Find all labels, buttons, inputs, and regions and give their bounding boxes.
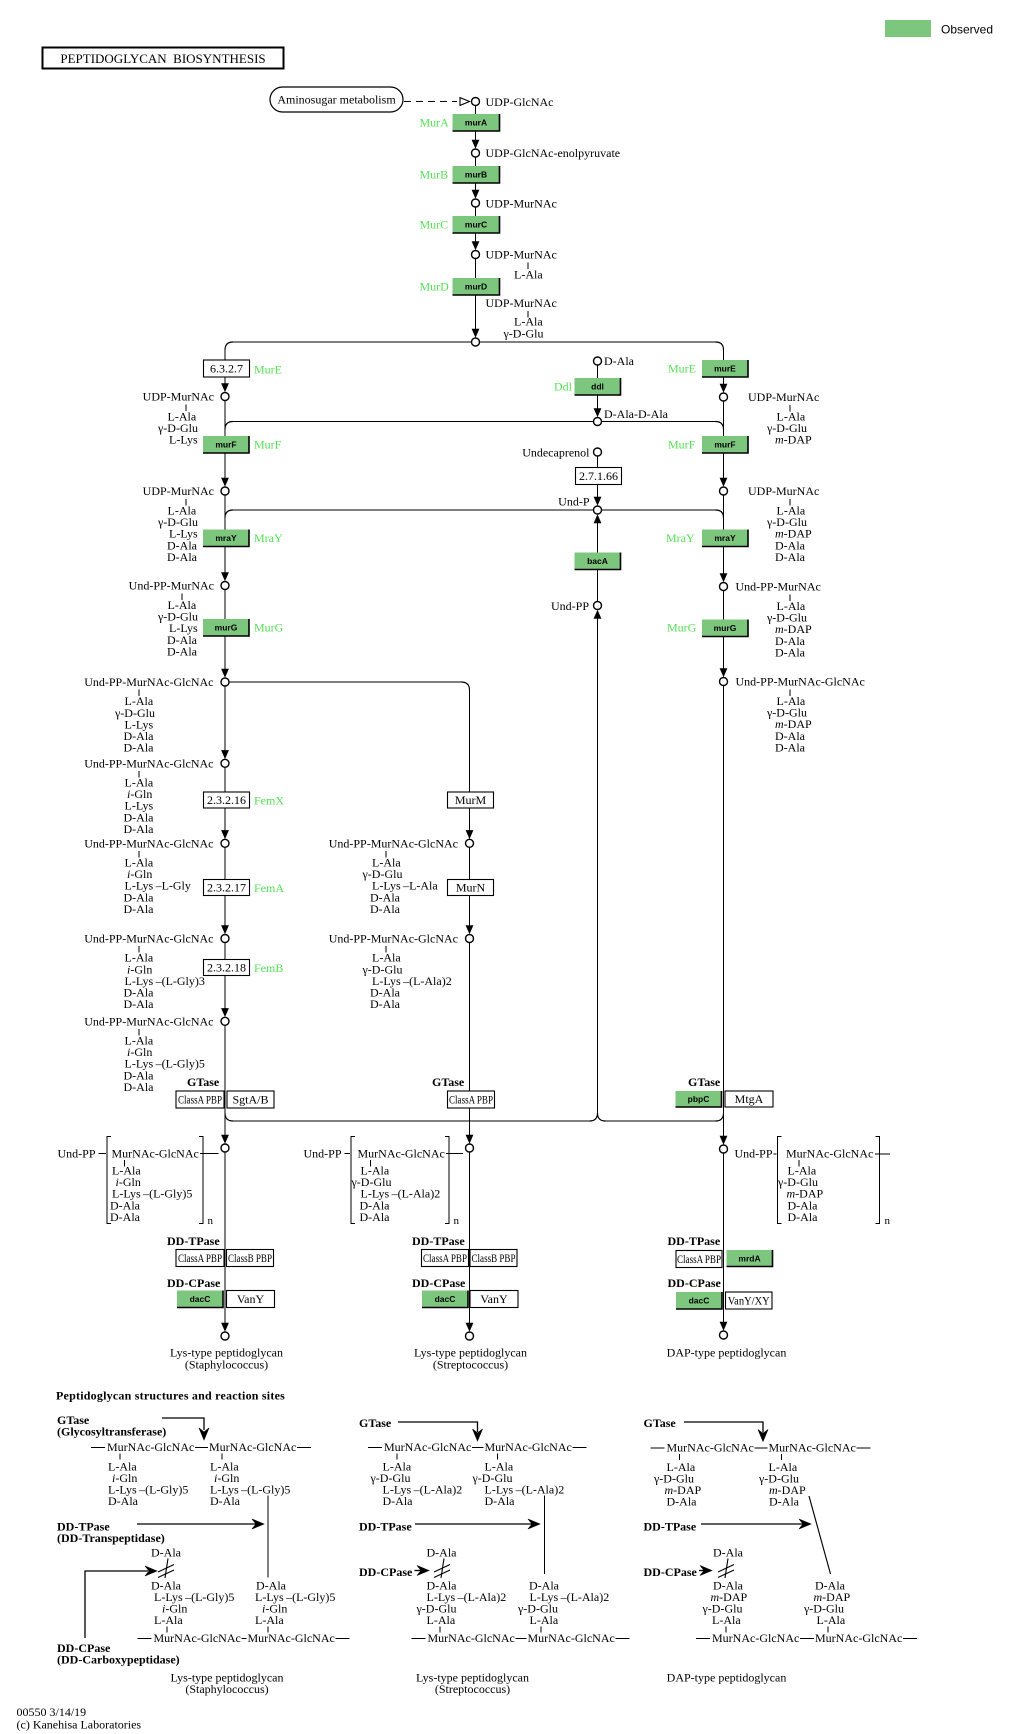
wire left node to murG: [224, 590, 226, 620]
pointer DD-TPase structure3: [701, 1519, 811, 1529]
wire to murC: [475, 207, 477, 216]
peptide s3 upper-left: [653, 1460, 702, 1509]
substituents c5: [124, 1034, 205, 1094]
svg-text:Und-PP-MurNAc-GlcNAc: Und-PP-MurNAc-GlcNAc: [84, 756, 213, 770]
tick under UDP-MurNAc 3: [527, 311, 529, 318]
wire und recycling fork left curve b: [225, 1113, 233, 1121]
svg-text:(Streptococcus): (Streptococcus): [433, 1358, 508, 1372]
svg-text:murD: murD: [465, 282, 487, 292]
wire MurM column vertical: [469, 690, 471, 792]
node Lys-type peptidoglycan Streptococcus: [466, 1332, 474, 1340]
wire Und-P feed corner left: [225, 510, 233, 518]
tick s1 bottom unit1: [166, 1627, 168, 1633]
tick under MurNAc middle: [370, 1160, 372, 1167]
glycan strand structure2 top: [368, 1440, 587, 1454]
svg-text:(DD-Carboxypeptidase): (DD-Carboxypeptidase): [57, 1653, 180, 1667]
arrow into product left: [221, 1320, 229, 1332]
svg-text:GTase: GTase: [187, 1075, 220, 1089]
tick s2 unit1: [396, 1454, 398, 1460]
svg-text:2.3.2.17: 2.3.2.17: [207, 881, 246, 895]
wire UDP-GlcNAc to murA: [475, 106, 477, 115]
node Und-PP-MurNAc-GlcNAc c5: [221, 1017, 229, 1025]
svg-text:murF: murF: [215, 440, 236, 450]
svg-text:VanY: VanY: [237, 1292, 265, 1306]
node Und-PP-MurNAc-GlcNAc right: [720, 678, 728, 686]
bracket right middle: [445, 1137, 449, 1224]
tick under UDP-MurNAc left 1: [185, 405, 187, 412]
gene box ClassA PBP GTase left: [176, 1091, 224, 1108]
wire dashed Aminosugar to UDP-GlcNAc: [404, 101, 457, 103]
svg-text:MurF: MurF: [254, 438, 282, 452]
svg-text:mrdA: mrdA: [738, 1253, 760, 1263]
arrow murD to main node: [472, 295, 480, 338]
arrow 6.3.2.7 to UDP-MurNAc-tripeptide: [221, 377, 229, 392]
svg-text:MurNAc-GlcNAc: MurNAc-GlcNAc: [154, 1631, 241, 1645]
wire main split corner left: [225, 342, 233, 350]
wire und recycling fork left horizontal: [233, 1120, 590, 1122]
pointer DD-CPase structure2: [415, 1566, 430, 1576]
tick s2 bottom unit1: [439, 1627, 441, 1633]
tick under UDP-MurNAc 2: [527, 263, 529, 270]
svg-text:D-Ala: D-Ala: [124, 997, 155, 1011]
svg-text:Und-PP: Und-PP: [58, 1147, 96, 1161]
gene box dacC left: [177, 1291, 223, 1308]
tick under m2: [385, 946, 387, 953]
svg-text:MurA: MurA: [420, 116, 450, 130]
svg-text:D-Ala: D-Ala: [383, 1494, 414, 1508]
peptide s2 upper-right: [472, 1460, 565, 1509]
svg-text:L-Ala: L-Ala: [712, 1613, 741, 1627]
node UDP-MurNAc pentapeptide right: [720, 487, 728, 495]
gene box ddl: [575, 378, 621, 395]
svg-text:D-Ala: D-Ala: [485, 1494, 516, 1508]
enzyme box 2.7.1.66: [576, 468, 622, 485]
svg-text:D-Ala: D-Ala: [124, 822, 155, 836]
crosslink bond s2: [544, 1496, 546, 1575]
svg-text:2.7.1.66: 2.7.1.66: [579, 469, 618, 483]
node Und-PP-MurNAc-GlcNAc c4: [221, 935, 229, 943]
bracket left middle: [351, 1137, 355, 1224]
gene box murD: [453, 278, 500, 295]
wire to murD: [475, 259, 477, 279]
svg-text:MurNAc-GlcNAc: MurNAc-GlcNAc: [248, 1631, 335, 1645]
gene box mraY left: [203, 530, 249, 547]
svg-text:VanY: VanY: [480, 1292, 508, 1306]
wire polymer right to product: [723, 1153, 725, 1323]
glycan strand structure2 bottom: [412, 1631, 630, 1645]
substituents right r3: [766, 599, 812, 659]
svg-text:MtgA: MtgA: [735, 1092, 764, 1106]
pointer DD-CPase structure1: [85, 1566, 157, 1638]
tick under c2: [138, 771, 140, 778]
bracket left right: [778, 1137, 782, 1224]
svg-text:ddl: ddl: [591, 382, 604, 392]
wire right node to murG: [723, 591, 725, 620]
svg-text:murB: murB: [465, 170, 487, 180]
svg-text:Und-PP-MurNAc: Und-PP-MurNAc: [736, 580, 821, 594]
svg-text:L-Ala: L-Ala: [530, 1613, 559, 1627]
svg-text:ClassA PBP: ClassA PBP: [423, 1251, 467, 1265]
peptide s2 upper-left: [370, 1460, 463, 1509]
gene box murF right: [702, 436, 748, 453]
gene box MtgA: [725, 1091, 773, 1107]
wire Und-P feed into left mraY: [233, 509, 594, 511]
svg-text:MurF: MurF: [668, 438, 696, 452]
svg-text:DAP-type peptidoglycan: DAP-type peptidoglycan: [667, 1346, 787, 1360]
svg-text:MurG: MurG: [254, 621, 284, 635]
wire main split horizontal: [233, 341, 716, 343]
gene box VanY/XY: [726, 1292, 773, 1309]
gene box murB: [453, 166, 500, 183]
enzyme box 2.3.2.17 FemA: [204, 880, 250, 896]
node Und-PP-MurNAc-GlcNAc m2: [466, 935, 474, 943]
svg-text:murF: murF: [714, 440, 735, 450]
glycan strand structure3 top: [651, 1441, 871, 1455]
svg-text:GTase: GTase: [359, 1416, 392, 1430]
tick under c3: [138, 851, 140, 858]
gene box murF left: [203, 436, 249, 453]
gene box pbpC: [676, 1091, 722, 1107]
svg-text:D-Ala: D-Ala: [667, 1495, 698, 1509]
svg-text:MurNAc-GlcNAc: MurNAc-GlcNAc: [209, 1440, 296, 1454]
svg-text:murC: murC: [465, 220, 487, 230]
wire D-Ala-D-Ala feed into right murF: [602, 421, 716, 423]
svg-text:DD-TPase: DD-TPase: [668, 1234, 721, 1248]
wire m2 to GTase middle: [469, 943, 471, 1137]
tick under UDP-MurNAc left 2: [185, 499, 187, 506]
svg-text:murE: murE: [714, 364, 736, 374]
svg-text:D-Ala: D-Ala: [110, 1210, 141, 1224]
tick under Und-PP-MurNAc-GlcNAc right: [789, 690, 791, 697]
svg-text:D-Ala: D-Ala: [775, 740, 806, 754]
svg-text:MurNAc-GlcNAc: MurNAc-GlcNAc: [107, 1440, 194, 1454]
tick s3 unit2: [781, 1454, 783, 1460]
svg-text:DD-TPase: DD-TPase: [644, 1520, 697, 1534]
arrow murB to UDP-MurNAc 1: [472, 183, 480, 199]
svg-text:Und-P: Und-P: [558, 495, 590, 509]
svg-text:Und-PP-MurNAc-GlcNAc: Und-PP-MurNAc-GlcNAc: [736, 675, 865, 689]
pointer DD-TPase structure1: [137, 1519, 264, 1529]
gene box murA: [453, 114, 500, 131]
svg-text:(Glycosyltransferase): (Glycosyltransferase): [57, 1425, 166, 1439]
svg-text:murG: murG: [714, 623, 737, 633]
arrow bacA to Und-P: [594, 514, 602, 552]
wire D-Ala-D-Ala feed corner left: [225, 422, 233, 430]
svg-text:Und-PP-MurNAc-GlcNAc: Und-PP-MurNAc-GlcNAc: [84, 932, 213, 946]
node Und-P: [594, 506, 602, 514]
arrow 2.3.2.18 to c5: [221, 976, 229, 1018]
svg-text:ClassA PBP: ClassA PBP: [449, 1093, 493, 1107]
svg-text:m-DAP: m-DAP: [775, 433, 812, 447]
wire Und-P feed corner right: [716, 510, 724, 518]
svg-text:UDP-GlcNAc: UDP-GlcNAc: [486, 95, 554, 109]
gene box ClassA PBP TPase right: [676, 1251, 722, 1268]
svg-text:6.3.2.7: 6.3.2.7: [210, 362, 243, 376]
tick s2 unit2: [497, 1454, 499, 1460]
wire und recycling fork left curve a: [590, 1113, 598, 1121]
arrow 2.3.2.17 to c4: [221, 896, 229, 935]
arrow recycling line into Und-PP: [594, 610, 602, 630]
svg-text:ClassA PBP: ClassA PBP: [178, 1251, 222, 1265]
arrow MurM to node m1: [466, 808, 474, 839]
node polymer middle: [466, 1144, 474, 1152]
svg-text:n: n: [454, 1215, 460, 1227]
node Und-PP-MurNAc-GlcNAc m1: [466, 839, 474, 847]
svg-text:L-Lys: L-Lys: [169, 433, 198, 447]
substituents m2: [362, 951, 452, 1011]
svg-text:(c) Kanehisa Laboratories: (c) Kanehisa Laboratories: [17, 1718, 142, 1732]
arrow into polymer node middle: [466, 1135, 474, 1144]
svg-text:MurNAc-GlcNAc: MurNAc-GlcNAc: [112, 1147, 199, 1161]
svg-text:Und-PP: Und-PP: [304, 1147, 342, 1161]
substituents right r4: [766, 694, 812, 754]
svg-text:2.3.2.18: 2.3.2.18: [207, 961, 246, 975]
svg-text:MurC: MurC: [420, 218, 449, 232]
svg-text:Und-PP-MurNAc-GlcNAc: Und-PP-MurNAc-GlcNAc: [329, 932, 458, 946]
tick under c5: [138, 1029, 140, 1036]
svg-text:Und-PP: Und-PP: [735, 1147, 773, 1161]
arrow MurN to node m2: [466, 896, 474, 935]
node UDP-MurNAc tripeptide left: [221, 393, 229, 401]
enzyme box MurM: [448, 792, 494, 808]
svg-text:UDP-MurNAc: UDP-MurNAc: [486, 248, 557, 262]
node Und-PP-MurNAc right: [720, 583, 728, 591]
svg-text:dacC: dacC: [190, 1294, 211, 1304]
wire Und-PP to bacA: [597, 570, 599, 602]
svg-text:MurN: MurN: [456, 881, 486, 895]
svg-text:Und-PP: Und-PP: [551, 599, 589, 613]
pointer GTase structure2: [398, 1422, 483, 1441]
gene box mrdA: [727, 1250, 773, 1267]
node UDP-MurNAc pentapeptide left: [221, 487, 229, 495]
svg-text:MurE: MurE: [668, 362, 696, 376]
svg-text:Und-PP-MurNAc: Und-PP-MurNAc: [129, 579, 214, 593]
svg-text:bacA: bacA: [587, 556, 608, 566]
wire D-Ala-D-Ala feed into left murF: [233, 421, 594, 423]
crosslink bond s3 diagonal: [809, 1496, 831, 1574]
svg-text:dacC: dacC: [435, 1294, 456, 1304]
node Und-PP: [594, 602, 602, 610]
svg-text:GTase: GTase: [432, 1075, 465, 1089]
svg-text:MurG: MurG: [667, 621, 697, 635]
svg-text:D-Ala: D-Ala: [210, 1494, 241, 1508]
svg-text:UDP-MurNAc: UDP-MurNAc: [486, 197, 557, 211]
gene box dacC right: [676, 1292, 722, 1309]
wire to murB: [475, 157, 477, 166]
cleavage site symbol structure2: [434, 1559, 450, 1579]
svg-text:MurNAc-GlcNAc: MurNAc-GlcNAc: [815, 1631, 902, 1645]
peptide s3 lower-left: [702, 1579, 748, 1628]
wire right col long vertical: [723, 686, 725, 1138]
node Und-PP-MurNAc-GlcNAc c3: [221, 839, 229, 847]
svg-text:MurM: MurM: [455, 793, 487, 807]
gene box VanY left: [227, 1291, 275, 1308]
peptide s1 lower-right: [255, 1579, 335, 1628]
svg-text:D-Ala: D-Ala: [167, 550, 198, 564]
tick s1 unit1: [119, 1454, 121, 1460]
svg-text:Observed: Observed: [941, 23, 993, 37]
arrow c1 to c2: [221, 686, 229, 759]
svg-text:ClassA PBP: ClassA PBP: [178, 1093, 222, 1107]
node UDP-GlcNAc-enolpyruvate: [472, 149, 480, 157]
substituents polymer left: [110, 1164, 192, 1224]
svg-text:MurNAc-GlcNAc: MurNAc-GlcNAc: [384, 1440, 471, 1454]
node DAP-type peptidoglycan product: [720, 1331, 728, 1339]
peptide s1 upper-right: [210, 1460, 290, 1509]
svg-text:SgtA/B: SgtA/B: [232, 1093, 268, 1107]
peptide s1 lower-left: [151, 1579, 234, 1628]
node D-Ala: [594, 357, 602, 365]
tie bracket to node left: [200, 1153, 219, 1155]
pointer GTase structure1: [162, 1418, 209, 1440]
wire Und-P feed into right mraY: [602, 509, 716, 511]
svg-text:n: n: [885, 1215, 891, 1227]
svg-text:L-Ala: L-Ala: [817, 1613, 846, 1627]
gene box bacA: [575, 553, 621, 570]
svg-text:UDP-MurNAc: UDP-MurNAc: [143, 390, 214, 404]
tick under Und-PP-MurNAc left: [181, 594, 183, 601]
wire polymer left to product: [224, 1152, 226, 1324]
substituents polymer middle: [351, 1164, 441, 1224]
svg-text:DD-CPase: DD-CPase: [359, 1565, 413, 1579]
tick under UDP-MurNAc right 2: [789, 499, 791, 506]
wire right node to mraY: [723, 495, 725, 530]
gene box murC: [453, 216, 500, 233]
svg-text:GTase: GTase: [644, 1416, 677, 1430]
svg-text:D-Ala: D-Ala: [775, 550, 806, 564]
svg-text:(Staphylococcus): (Staphylococcus): [185, 1682, 268, 1696]
substituents L-Ala gamma-D-Glu L-Lys (left s1): [157, 410, 198, 447]
pointer GTase structure3: [684, 1422, 768, 1442]
wire und recycling fork right horizontal: [606, 1120, 716, 1122]
svg-text:DD-TPase: DD-TPase: [167, 1234, 220, 1248]
arrow murG right to node r4: [720, 637, 728, 678]
pointer DD-TPase structure2: [415, 1519, 540, 1529]
node UDP-GlcNAc: [472, 98, 480, 106]
substituents m1: [362, 856, 439, 916]
wire main split corner right: [716, 342, 724, 350]
svg-text:FemA: FemA: [254, 881, 284, 895]
svg-text:L-Ala: L-Ala: [154, 1613, 183, 1627]
bracket left left: [107, 1137, 111, 1224]
enzyme box MurN: [448, 880, 494, 896]
svg-text:Peptidoglycan structures and r: Peptidoglycan structures and reaction si…: [56, 1389, 285, 1403]
svg-text:MurNAc-GlcNAc: MurNAc-GlcNAc: [786, 1147, 873, 1161]
svg-text:MraY: MraY: [254, 531, 283, 545]
svg-text:(Streptococcus): (Streptococcus): [435, 1682, 510, 1696]
bracket right left: [199, 1137, 203, 1224]
svg-text:ClassB PBP: ClassB PBP: [472, 1251, 516, 1265]
svg-text:GTase: GTase: [688, 1075, 721, 1089]
node polymer left: [221, 1144, 229, 1152]
substituents c3: [124, 856, 191, 916]
arrow murC to UDP-MurNAc 2: [472, 233, 480, 250]
substituents right r2: [766, 504, 812, 564]
tie bracket to node middle: [446, 1153, 463, 1155]
arrow into polymer node left: [221, 1132, 229, 1144]
svg-text:L-Ala: L-Ala: [427, 1613, 456, 1627]
node Aminosugar metabolism pill: [270, 87, 403, 112]
svg-text:D-Ala: D-Ala: [604, 354, 635, 368]
arrow 2.3.2.16 to c3: [221, 808, 229, 839]
arrow murF left to node: [221, 453, 229, 487]
svg-text:D-Ala: D-Ala: [713, 1546, 744, 1560]
svg-text:DD-CPase: DD-CPase: [412, 1276, 466, 1290]
arrow murG left to node: [221, 636, 229, 678]
svg-text:L-Ala: L-Ala: [514, 268, 543, 282]
svg-text:MurNAc-GlcNAc: MurNAc-GlcNAc: [428, 1631, 515, 1645]
wire left col c5 to junction: [224, 1025, 226, 1136]
substituents polymer right: [777, 1164, 824, 1224]
svg-text:L-Ala: L-Ala: [255, 1613, 284, 1627]
svg-text:Und-PP-MurNAc-GlcNAc: Und-PP-MurNAc-GlcNAc: [84, 836, 213, 850]
node Undecaprenol: [594, 448, 602, 456]
gene box murE right: [702, 360, 748, 377]
svg-text:pbpC: pbpC: [688, 1094, 710, 1104]
svg-text:DD-TPase: DD-TPase: [359, 1520, 412, 1534]
arrow 2.7.1.66 to Und-P: [594, 485, 602, 506]
wire und recycling vertical: [597, 628, 599, 1113]
svg-text:γ-D-Glu: γ-D-Glu: [503, 327, 544, 341]
gene box dacC middle: [422, 1291, 468, 1308]
svg-text:MurB: MurB: [420, 168, 449, 182]
arrow mraY right to node r3: [720, 547, 728, 583]
node Und-PP-MurNAc-GlcNAc c2: [221, 759, 229, 767]
tick under UDP-MurNAc right 1: [789, 405, 791, 412]
svg-text:2.3.2.16: 2.3.2.16: [207, 793, 246, 807]
gene box ClassA PBP TPase left: [176, 1250, 224, 1267]
substituents c2: [124, 776, 155, 836]
glycan strand structure3 bottom: [696, 1631, 917, 1645]
svg-text:D-Ala: D-Ala: [151, 1546, 182, 1560]
svg-text:MurNAc-GlcNAc: MurNAc-GlcNAc: [358, 1147, 445, 1161]
wire und recycling fork right curve b: [716, 1113, 724, 1121]
node UDP-MurNAc 1: [472, 199, 480, 207]
svg-text:UDP-MurNAc: UDP-MurNAc: [486, 296, 557, 310]
crosslink bond s1: [267, 1496, 269, 1578]
node Und-PP-MurNAc left: [221, 582, 229, 590]
enzyme box 6.3.2.7 MurE: [204, 360, 250, 377]
node D-Ala-D-Ala: [594, 418, 602, 426]
svg-text:Aminosugar metabolism: Aminosugar metabolism: [277, 93, 396, 107]
arrow murA to UDP-GlcNAc-enolpyruvate: [472, 131, 480, 149]
wire c2 to 2.3.2.16: [224, 767, 226, 792]
svg-text:D-Ala: D-Ala: [775, 645, 806, 659]
tick under c4: [138, 946, 140, 953]
svg-text:PEPTIDOGLYCAN BIOSYNTHESIS: PEPTIDOGLYCAN BIOSYNTHESIS: [60, 51, 265, 66]
peptide s3 lower-right: [803, 1579, 851, 1628]
svg-text:DD-CPase: DD-CPase: [644, 1565, 698, 1579]
gene box ClassA PBP TPase middle: [422, 1250, 469, 1267]
svg-text:n: n: [208, 1215, 214, 1227]
wire m1 to MurN: [469, 847, 471, 879]
peptide s3 upper-right: [758, 1460, 806, 1509]
gene box ClassB PBP TPase left: [227, 1250, 274, 1267]
node Lys-type peptidoglycan Staphylococcus: [221, 1332, 229, 1340]
wire D-Ala-D-Ala feed corner right: [716, 422, 724, 430]
enzyme box 2.3.2.18 FemB: [204, 960, 250, 976]
tick under MurNAc right: [798, 1160, 800, 1167]
svg-text:(DD-Transpeptidase): (DD-Transpeptidase): [57, 1531, 165, 1545]
enzyme box 2.3.2.16 FemX: [204, 792, 250, 808]
tick under Und-PP-MurNAc right: [789, 595, 791, 602]
svg-text:MurNAc-GlcNAc: MurNAc-GlcNAc: [528, 1631, 615, 1645]
svg-text:ClassB PBP: ClassB PBP: [228, 1251, 272, 1265]
svg-text:FemX: FemX: [254, 794, 284, 808]
tick under MurNAc left: [124, 1160, 126, 1167]
svg-text:MurNAc-GlcNAc: MurNAc-GlcNAc: [769, 1441, 856, 1455]
svg-text:MurNAc-GlcNAc: MurNAc-GlcNAc: [485, 1440, 572, 1454]
